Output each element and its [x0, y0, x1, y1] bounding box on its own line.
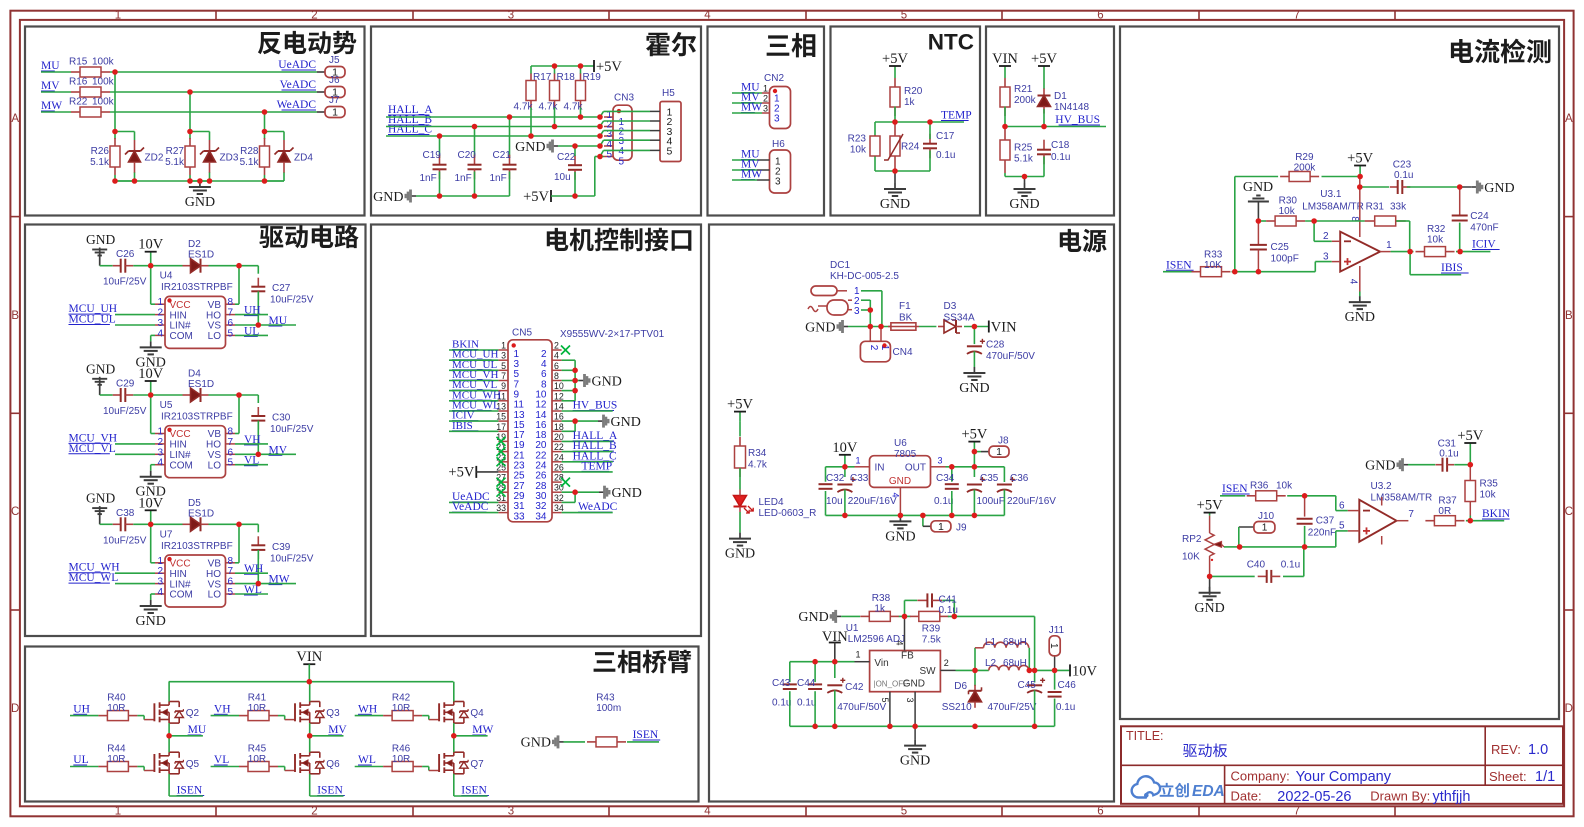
svg-text:C40: C40 — [1247, 560, 1266, 571]
wire — [454, 735, 488, 737]
svg-text:U4: U4 — [160, 271, 173, 282]
capacitor C46 0.1u — [1048, 670, 1077, 713]
pin 23 — [496, 452, 525, 471]
svg-text:C37: C37 — [1316, 516, 1335, 527]
ground — [725, 533, 755, 562]
wire HALL_B — [386, 126, 600, 128]
svg-text:6: 6 — [228, 318, 234, 329]
svg-text:VIN: VIN — [991, 320, 1017, 336]
wire — [137, 716, 154, 720]
svg-text:3: 3 — [937, 456, 942, 466]
svg-text:5: 5 — [901, 806, 907, 818]
wire — [1034, 690, 1036, 726]
ground — [1194, 576, 1224, 615]
svg-text:COM: COM — [170, 331, 193, 342]
svg-text:VeADC: VeADC — [280, 79, 317, 91]
title 电流检测 — [1451, 39, 1551, 64]
wire HALL_C — [386, 135, 600, 137]
svg-text:VB: VB — [208, 429, 222, 440]
wire — [509, 117, 511, 158]
wire — [562, 451, 613, 453]
wire gnd bus — [115, 180, 284, 182]
wire R17 down — [530, 108, 532, 137]
svg-text:C21: C21 — [493, 150, 512, 161]
wire — [1004, 76, 1006, 78]
svg-text:R35: R35 — [1480, 479, 1499, 490]
resistor R25 5.1k — [1000, 127, 1034, 173]
svg-text:GND: GND — [521, 736, 551, 751]
junction — [572, 388, 578, 394]
svg-text:GND: GND — [1194, 601, 1224, 616]
wire isen up — [1234, 177, 1236, 272]
svg-text:3: 3 — [775, 177, 781, 188]
net label ISEN — [1166, 259, 1194, 271]
pin — [757, 157, 781, 168]
svg-text:0.1u: 0.1u — [936, 150, 955, 161]
svg-text:C18: C18 — [1051, 140, 1070, 151]
net label VeADC — [280, 79, 317, 91]
capacitor C28 470uF/50V — [967, 327, 1035, 363]
junction — [972, 449, 978, 455]
svg-text:200k: 200k — [1294, 163, 1317, 174]
no-connect x — [497, 488, 506, 497]
net label MCU_VL — [69, 443, 116, 455]
wire gnd group1 — [562, 360, 579, 401]
junction — [472, 193, 478, 199]
pin 33 — [496, 503, 525, 522]
svg-text:GND: GND — [725, 547, 755, 562]
pin 32 — [535, 493, 564, 512]
capacitor C21 1nF — [490, 150, 517, 184]
power flag VIN — [992, 51, 1018, 76]
pin 26 — [535, 462, 564, 481]
svg-text:GND: GND — [86, 232, 115, 247]
svg-text:L2: L2 — [985, 658, 997, 669]
wire — [1005, 157, 1044, 177]
svg-text:4: 4 — [704, 9, 711, 21]
wire — [1469, 465, 1471, 521]
svg-text:0.1u: 0.1u — [772, 698, 791, 709]
svg-text:MCU_WL: MCU_WL — [69, 572, 119, 584]
svg-text:GND: GND — [611, 415, 641, 430]
wire — [1408, 464, 1435, 466]
svg-text:LO: LO — [208, 331, 222, 342]
capacitor C40 0.1u — [1247, 560, 1300, 583]
junction — [597, 133, 603, 139]
svg-text:8: 8 — [228, 297, 234, 308]
svg-text:VS: VS — [208, 450, 222, 461]
svg-text:LM358AM/TR: LM358AM/TR — [1371, 493, 1433, 504]
svg-text:+5V: +5V — [1347, 151, 1373, 167]
pin 6 VS — [208, 447, 235, 461]
svg-text:C26: C26 — [116, 249, 135, 260]
svg-text:10u: 10u — [554, 172, 571, 183]
pin 24 — [535, 452, 564, 471]
svg-text:ISEN: ISEN — [177, 785, 203, 797]
connector H6 — [770, 139, 791, 193]
resistor R17 4.7k — [526, 72, 552, 108]
wire — [449, 430, 498, 432]
capacitor C26 10uF/25V — [103, 249, 147, 288]
svg-text:KH-DC-005-2.5: KH-DC-005-2.5 — [830, 271, 899, 282]
diode D3 SS34A — [938, 301, 975, 333]
junction — [1311, 218, 1317, 224]
svg-text:25: 25 — [496, 462, 506, 472]
svg-text:Company:: Company: — [1231, 769, 1290, 784]
wire — [1456, 251, 1490, 253]
svg-text:R31: R31 — [1366, 202, 1385, 213]
svg-text:10K: 10K — [1204, 260, 1222, 271]
svg-text:Your Company: Your Company — [1296, 769, 1392, 785]
net label IBIS — [1441, 262, 1469, 274]
svg-text:GND: GND — [885, 529, 915, 544]
svg-text:220uF/16V: 220uF/16V — [1007, 496, 1056, 507]
title block Company — [1231, 769, 1392, 786]
svg-text:WH: WH — [358, 703, 377, 715]
svg-text:MV: MV — [328, 724, 347, 736]
svg-text:+5V: +5V — [727, 397, 753, 413]
wire — [974, 451, 981, 453]
pin 22 — [535, 442, 564, 461]
svg-text:470uF/25V: 470uF/25V — [988, 702, 1037, 713]
svg-text:R43: R43 — [596, 693, 615, 704]
svg-text:IN: IN — [875, 463, 885, 474]
svg-text:C35: C35 — [980, 473, 999, 484]
connector CN5 — [508, 328, 665, 522]
svg-text:10R: 10R — [248, 754, 266, 765]
svg-text:LED-0603_R: LED-0603_R — [759, 508, 817, 519]
wire — [1407, 186, 1460, 188]
net label MU — [188, 724, 207, 736]
svg-text:10V: 10V — [832, 440, 858, 456]
junction — [112, 178, 118, 184]
svg-text:U3.1: U3.1 — [1320, 189, 1342, 200]
junction — [148, 263, 154, 269]
wire drain — [168, 682, 170, 702]
svg-text:C23: C23 — [1393, 160, 1412, 171]
svg-text:FB: FB — [901, 651, 914, 662]
power flag 10V — [138, 237, 164, 266]
title 电源 — [1060, 229, 1107, 252]
net label MCU_WL — [69, 572, 119, 584]
svg-text:4: 4 — [157, 328, 163, 339]
svg-text:LIN#: LIN# — [170, 450, 192, 461]
wire isen — [453, 774, 455, 796]
junction — [812, 659, 818, 665]
wire — [1305, 220, 1365, 222]
connector J8 — [981, 436, 1009, 459]
zener diode ZD2 — [125, 140, 164, 173]
no-connect x — [561, 478, 570, 487]
svg-text:TITLE:: TITLE: — [1126, 729, 1164, 743]
svg-text:R29: R29 — [1295, 152, 1314, 163]
resistor R37 0R — [1425, 496, 1464, 526]
wire — [211, 766, 239, 768]
wire — [115, 572, 155, 574]
wire plus row — [1240, 531, 1348, 547]
power flag VIN — [822, 629, 848, 662]
pin 18 — [535, 422, 564, 441]
svg-text:10k: 10k — [1279, 206, 1296, 217]
svg-text:2: 2 — [157, 437, 163, 448]
svg-text:R36: R36 — [1250, 481, 1269, 492]
svg-text:2: 2 — [763, 94, 768, 104]
svg-text:33k: 33k — [1390, 202, 1407, 213]
svg-text:J9: J9 — [956, 523, 967, 534]
net label ISEN — [1222, 483, 1250, 495]
power flag +5V — [1031, 51, 1057, 76]
junction — [112, 69, 118, 75]
svg-text:VS: VS — [208, 579, 222, 590]
power flag +5V — [585, 59, 622, 75]
junction — [949, 464, 955, 470]
ground — [136, 600, 166, 629]
wire h5 row — [604, 149, 651, 151]
svg-text:HV_BUS: HV_BUS — [1055, 114, 1100, 126]
pin 25 — [496, 462, 525, 481]
svg-text:OUT: OUT — [905, 463, 926, 474]
junction — [1032, 724, 1038, 730]
svg-text:D2: D2 — [188, 239, 201, 250]
junction — [236, 263, 242, 269]
svg-text:4: 4 — [554, 351, 559, 361]
svg-text:MU: MU — [41, 60, 60, 72]
junction — [842, 513, 848, 519]
pin 3 — [498, 351, 519, 370]
diode D4 ES1D — [183, 369, 215, 403]
svg-text:VH: VH — [214, 703, 231, 715]
power flag +5V — [448, 465, 498, 481]
svg-text:R18: R18 — [557, 72, 576, 83]
svg-text:UH: UH — [73, 703, 90, 715]
wire — [732, 179, 757, 181]
mosfet Q7 — [439, 752, 484, 774]
junction — [878, 324, 884, 330]
svg-text:MCU_UL: MCU_UL — [69, 314, 116, 326]
svg-text:470uF/50V: 470uF/50V — [986, 351, 1035, 362]
svg-text:VCC: VCC — [170, 559, 191, 570]
junction — [507, 114, 513, 120]
resistor R39 7.5k — [910, 611, 949, 645]
wire — [209, 395, 259, 403]
svg-text:LO: LO — [208, 460, 222, 471]
net label ISEN — [633, 729, 661, 741]
wire — [562, 440, 613, 442]
wire — [627, 741, 659, 743]
resistor R35 10k — [1465, 479, 1498, 502]
svg-text:15: 15 — [496, 412, 506, 422]
pin 21 — [496, 442, 525, 461]
svg-text:R41: R41 — [248, 693, 267, 704]
svg-text:WeADC: WeADC — [277, 99, 317, 111]
pin 8 VB — [208, 297, 235, 311]
wire vin rail — [790, 661, 855, 663]
pin 4 COM — [155, 587, 193, 601]
svg-text:10uF/25V: 10uF/25V — [270, 553, 314, 564]
svg-text:Drawn By:: Drawn By: — [1370, 789, 1430, 804]
svg-text:R21: R21 — [1014, 84, 1033, 95]
pin 11 — [497, 391, 524, 410]
junction — [572, 368, 578, 374]
ground flag — [1460, 181, 1515, 196]
pin 5 LO — [208, 328, 235, 342]
svg-text:+5V: +5V — [448, 465, 474, 481]
wire diagonal — [600, 131, 604, 136]
svg-text:4: 4 — [157, 458, 163, 469]
svg-text:GND: GND — [592, 374, 622, 389]
wire — [115, 583, 155, 585]
wire — [1043, 109, 1045, 127]
title block TITLE — [1126, 729, 1164, 743]
svg-text:6: 6 — [228, 577, 234, 588]
ground GND — [1243, 180, 1273, 221]
wire vin rail — [169, 681, 454, 683]
wire VB — [235, 395, 239, 434]
svg-text:MU: MU — [188, 724, 207, 736]
wire — [189, 92, 191, 139]
svg-text:NTC: NTC — [928, 30, 974, 55]
capacitor C23 0.1u — [1390, 160, 1414, 195]
svg-text:1: 1 — [332, 107, 338, 119]
wire — [1459, 223, 1461, 252]
junction — [832, 659, 838, 665]
power flag +5V — [1457, 428, 1483, 465]
svg-text:200k: 200k — [1014, 95, 1037, 106]
wire in rail — [826, 466, 855, 468]
capacitor C25 100pF — [1250, 221, 1299, 265]
junction — [868, 307, 874, 313]
ground flag — [1365, 458, 1408, 473]
net label UL — [244, 325, 259, 337]
resistor R43 100m — [587, 693, 626, 747]
pin 30 — [535, 483, 564, 502]
label 4.7k — [514, 102, 584, 113]
wire rail — [848, 326, 891, 328]
no-connect x — [497, 478, 506, 487]
svg-text:5: 5 — [228, 458, 234, 469]
svg-text:+5V: +5V — [523, 189, 549, 205]
title block frame — [1121, 726, 1563, 804]
svg-text:1: 1 — [763, 84, 768, 94]
wire — [209, 524, 259, 532]
wire — [551, 157, 604, 197]
pin 7 HO — [206, 308, 235, 322]
wire MW to WeADC — [110, 111, 317, 113]
junction — [197, 178, 203, 184]
net label HV_BUS — [573, 400, 618, 412]
svg-text:10V: 10V — [138, 366, 164, 382]
net label UeADC — [452, 491, 490, 503]
svg-text:VB: VB — [208, 559, 222, 570]
pin 4 — [650, 135, 673, 147]
net label HALL_A — [388, 104, 433, 116]
resistor R22 100k — [69, 97, 115, 118]
zener diode ZD3 — [200, 140, 239, 173]
svg-text:H5: H5 — [662, 88, 675, 99]
junction — [972, 668, 978, 674]
net label MCU_WH — [452, 389, 501, 401]
svg-text:1k: 1k — [874, 604, 886, 615]
capacitor C35 100uF — [967, 473, 1005, 507]
resistor R32 10k — [1416, 224, 1455, 257]
wire — [1396, 221, 1410, 252]
pin 2 HIN — [155, 437, 187, 451]
junction — [1256, 218, 1262, 224]
svg-text:10K: 10K — [1182, 552, 1200, 563]
svg-text:5: 5 — [501, 361, 506, 371]
svg-text:16: 16 — [554, 412, 564, 422]
connector DC1 KH-DC-005-2.5 — [808, 260, 899, 317]
svg-text:ISEN: ISEN — [1166, 259, 1192, 271]
ic U4 IR2103STRPBF — [160, 271, 233, 349]
net label MV — [328, 724, 347, 736]
net label WL — [244, 584, 262, 596]
wire — [919, 326, 936, 328]
wire — [509, 172, 511, 197]
wire gnd rail2 — [790, 725, 1054, 727]
svg-text:C32: C32 — [826, 473, 845, 484]
ground — [136, 471, 166, 500]
wire — [841, 615, 860, 617]
svg-text:LIN#: LIN# — [170, 579, 192, 590]
junction — [528, 133, 534, 139]
ground flag — [521, 735, 564, 750]
svg-text:4.7k: 4.7k — [539, 102, 559, 113]
junction — [912, 724, 918, 730]
svg-text:J8: J8 — [998, 436, 1009, 447]
junction — [597, 114, 603, 120]
svg-text:ISEN: ISEN — [633, 729, 659, 741]
junction — [572, 418, 578, 424]
svg-text:33: 33 — [496, 503, 506, 513]
junction — [1052, 668, 1058, 674]
wire dc1 pin1 — [861, 291, 882, 327]
svg-text:2: 2 — [157, 308, 163, 319]
wire — [115, 132, 135, 141]
wire — [265, 132, 285, 141]
wire — [235, 334, 268, 336]
svg-text:4: 4 — [895, 640, 905, 645]
pin 1 — [604, 110, 625, 128]
wire isen — [168, 774, 170, 796]
resistor R40 10R — [98, 693, 137, 721]
svg-text:WeADC: WeADC — [578, 501, 618, 513]
wire — [169, 795, 203, 797]
capacitor C22 10u — [554, 152, 582, 183]
wire pin2 branch — [1314, 221, 1332, 241]
svg-text:L1: L1 — [985, 637, 997, 648]
svg-text:GND: GND — [373, 190, 403, 205]
net label ISEN — [461, 785, 489, 797]
connector J6 — [317, 75, 345, 99]
svg-text:1: 1 — [501, 341, 506, 351]
svg-text:220uF/16V: 220uF/16V — [848, 496, 897, 507]
pin 3 LIN# — [155, 447, 191, 461]
wire HALL_A — [386, 116, 600, 118]
svg-text:32: 32 — [554, 493, 564, 503]
pin 12 — [535, 391, 564, 410]
pin 8 VB — [208, 556, 235, 570]
svg-text:1nF: 1nF — [455, 173, 472, 184]
junction — [262, 178, 268, 184]
svg-text:J10: J10 — [1258, 511, 1275, 522]
resistor R20 1k — [890, 78, 923, 116]
svg-text:1: 1 — [1048, 643, 1059, 649]
svg-text:100m: 100m — [596, 703, 621, 714]
svg-text:GND: GND — [903, 679, 925, 690]
svg-text:R33: R33 — [1204, 250, 1223, 261]
net label TEMP — [582, 460, 613, 472]
